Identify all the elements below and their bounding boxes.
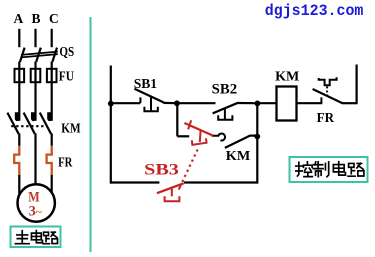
- thermal contact FR fixed tick: [320, 97, 322, 103]
- character lu (second): [348, 163, 364, 176]
- svg-text:B: B: [32, 11, 41, 26]
- switch QS blade phase A: [20, 48, 25, 62]
- wire phase B top: [34, 29, 36, 47]
- pushbutton SB3 bottom fixed tick: [179, 184, 182, 190]
- thermal contact FR movable bridge (NC): [313, 89, 343, 103]
- wire phase B through fuse: [34, 62, 36, 121]
- wire phase A top: [18, 29, 20, 47]
- character dian (second): [333, 162, 345, 175]
- contactor KM main blade phase A: [7, 113, 18, 134]
- thermal contact FR dotted link: [326, 87, 328, 97]
- control circuit right column: [256, 103, 258, 183]
- pushbutton SB3 top actuator cap: [192, 138, 207, 145]
- latch branch wire down from SB1 junction: [176, 103, 178, 136]
- control circuit caption box (kong zhi dian lu): [290, 157, 368, 182]
- contactor KM main blade phase C: [40, 113, 51, 134]
- wire phase C through fuse: [51, 62, 53, 121]
- character dian: [31, 231, 42, 243]
- latch branch wire to SB3 NC gap: [177, 135, 189, 137]
- contactor KM fixed contact lug phase A: [15, 112, 20, 121]
- node junction dot KM aux right: [254, 134, 260, 140]
- wire phase A below KM: [18, 133, 20, 146]
- character zhi: [313, 162, 328, 177]
- fuse FU phase C: [47, 69, 57, 82]
- pushbutton SB3 top fixed tick: [188, 120, 191, 129]
- svg-text:A: A: [14, 11, 24, 26]
- svg-text:KM: KM: [275, 69, 299, 84]
- pushbutton SB2 actuator stem: [224, 108, 226, 119]
- control circuit right rail: [356, 65, 358, 105]
- svg-text:dgjs123.com: dgjs123.com: [265, 2, 364, 20]
- wire KM coil to FR contact: [297, 102, 323, 104]
- svg-text:SB3: SB3: [144, 161, 179, 178]
- svg-text:FR: FR: [58, 156, 73, 171]
- svg-text:SB1: SB1: [134, 77, 157, 92]
- pushbutton SB3 top actuator stem: [199, 130, 202, 142]
- svg-text:3~: 3~: [29, 203, 42, 219]
- pushbutton SB1 actuator cap: [144, 107, 157, 112]
- wire SB2 to junction: [238, 102, 258, 104]
- pushbutton SB3 bottom actuator cap: [165, 196, 180, 201]
- svg-text:FU: FU: [59, 68, 74, 83]
- node junction dot SB1 right: [174, 100, 180, 106]
- character zhu: [15, 231, 29, 244]
- bottom return wire left segment: [111, 181, 160, 183]
- switch QS linkage bar (double line): [21, 52, 58, 55]
- wire main line from rail to SB1: [111, 102, 141, 104]
- main circuit caption box (zhu dian lu): [11, 227, 61, 248]
- wire phase C top: [51, 29, 53, 47]
- coil KM rectangle: [277, 87, 297, 121]
- wire phase B below KM down to motor: [34, 133, 36, 185]
- fuse FU phase B: [31, 69, 41, 82]
- switch QS blade phase B: [36, 48, 41, 62]
- wire junction to KM coil: [257, 102, 276, 104]
- svg-text:C: C: [49, 11, 59, 26]
- node junction dot left rail: [108, 101, 114, 107]
- svg-text:KM: KM: [61, 121, 80, 136]
- character kong: [296, 162, 313, 177]
- contactor KM fixed contact lug phase C: [47, 112, 52, 121]
- node junction dot SB2 right: [255, 101, 261, 107]
- svg-text:QS: QS: [59, 44, 74, 59]
- contact KM auxiliary movable bridge (NO): [225, 136, 257, 148]
- pushbutton SB2 movable bridge (NO): [213, 103, 239, 114]
- divider line between main and control circuit: [90, 17, 92, 252]
- wire phase C below KM: [51, 133, 53, 146]
- thermal relay FR heater phase C: [47, 146, 52, 176]
- svg-text:SB2: SB2: [212, 82, 237, 98]
- pushbutton SB3 (red, NO contact in bottom wire) bridge: [157, 183, 184, 193]
- pushbutton SB1 fixed contact tick: [139, 97, 141, 103]
- character lu: [43, 232, 57, 244]
- contactor KM fixed contact lug phase B: [31, 112, 36, 121]
- wire junction to SB2: [177, 102, 216, 104]
- pushbutton SB3 (red, new NC contact in latch branch) bridge: [184, 123, 213, 136]
- pushbutton SB1 movable bridge (NC): [134, 89, 163, 103]
- motion dashed line for SB3: [181, 150, 198, 185]
- svg-text:KM: KM: [226, 149, 250, 164]
- wire phase A to motor: [18, 175, 20, 195]
- wire SB1 to junction: [163, 102, 177, 104]
- pushbutton SB2 actuator cap: [218, 115, 232, 120]
- svg-text:FR: FR: [317, 111, 335, 126]
- bottom return wire right segment: [184, 181, 257, 183]
- motor M circle: [18, 184, 55, 221]
- pushbutton SB3 bottom actuator stem: [171, 188, 173, 196]
- contact KM auxiliary fixed hook: [212, 134, 226, 141]
- fuse FU phase A: [15, 69, 25, 82]
- control circuit left rail: [110, 66, 112, 184]
- pushbutton SB1 actuator stem: [150, 97, 152, 111]
- wire FR to right rail: [342, 102, 357, 104]
- switch QS blade phase C: [52, 48, 57, 62]
- wire phase A through fuse: [18, 62, 20, 121]
- contactor KM linkage dotted line: [11, 125, 46, 127]
- contactor KM main blade phase B: [24, 113, 35, 134]
- thermal relay FR heater phase A: [14, 146, 19, 176]
- wire phase C to motor: [51, 175, 53, 195]
- thermal contact FR release notched bar: [319, 77, 337, 85]
